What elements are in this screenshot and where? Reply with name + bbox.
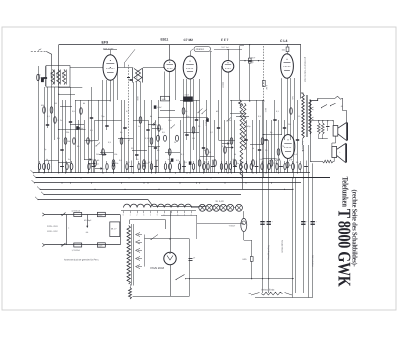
antenna lead-in (dashed) — [31, 51, 46, 53]
junction d55 — [169, 238, 170, 239]
svg-text:4: 4 — [150, 214, 151, 217]
wire column x117.6 — [117, 68, 119, 101]
wire column x113.5 — [113, 80, 115, 173]
svg-text:10k: 10k — [260, 158, 263, 161]
wire V5 anode right — [300, 45, 302, 99]
wire xfmr sec top — [310, 98, 318, 100]
coil box K2 — [184, 97, 193, 102]
junction 10 — [241, 177, 242, 178]
wire column x278.5 — [278, 120, 280, 173]
interference filter D2 — [97, 243, 105, 247]
svg-text:W. 6,3V: W. 6,3V — [216, 200, 225, 203]
resistor R30 tall — [240, 103, 243, 178]
wire y162 — [58, 162, 70, 164]
svg-text:Telefunken: Telefunken — [340, 177, 349, 208]
svg-text:50k: 50k — [67, 140, 70, 143]
wire y100 a — [75, 100, 110, 102]
junction d41 — [110, 67, 111, 68]
capacitor C4 — [90, 117, 93, 119]
wire column x62 — [62, 100, 64, 173]
svg-text:1001: 1001 — [61, 72, 64, 76]
svg-text:60.36μF: 60.36μF — [84, 219, 92, 222]
junction d51 — [169, 71, 170, 72]
wire column x259.5 — [259, 120, 261, 173]
wire column x38 — [38, 66, 40, 173]
wire column x95 — [94, 120, 96, 173]
junction d21 — [183, 177, 184, 178]
svg-text:2: 2 — [136, 214, 137, 217]
wire column x55 — [54, 87, 56, 140]
wire grid feed y60.7 — [240, 60, 265, 62]
resistor R40 0.1M — [263, 80, 266, 86]
junction d35 — [271, 182, 272, 183]
wire y140 a — [85, 140, 99, 142]
svg-text:Heizw. Entbr.: Heizw. Entbr. — [262, 288, 276, 291]
resistor Rg antenna — [41, 78, 43, 82]
lamp La1 — [199, 204, 206, 211]
junction d52 — [128, 139, 129, 140]
wire col A — [262, 178, 264, 293]
wire col E — [308, 145, 310, 298]
junction d50 — [58, 129, 59, 130]
junction d60 — [318, 120, 319, 121]
resistor Rr13 — [143, 164, 146, 170]
coil box K1 — [161, 96, 170, 101]
junction d10 — [113, 172, 114, 173]
tube V4 FF7 — [222, 61, 234, 73]
resistor Rr25 — [225, 164, 228, 170]
svg-text:1M: 1M — [54, 102, 57, 105]
wire column x281.3 — [281, 78, 283, 134]
resistor Rr22 — [207, 164, 209, 170]
svg-text:25k: 25k — [115, 162, 118, 165]
wire column x91.5 — [91, 87, 93, 173]
svg-text:x: x — [68, 228, 69, 230]
wire box right vertical — [120, 215, 122, 246]
svg-text:9: 9 — [184, 214, 185, 217]
svg-text:Tonabnehmer: Tonabnehmer — [281, 240, 284, 253]
junction d64 — [287, 44, 288, 45]
wire column x81 — [80, 100, 82, 173]
junction 11 — [262, 177, 263, 178]
mains lead upper — [45, 214, 121, 216]
junction d26 — [214, 177, 215, 178]
wire chain to lamps — [192, 207, 200, 209]
chain tap 3 — [137, 211, 139, 213]
junction d46 — [227, 60, 228, 61]
junction d43 — [117, 67, 118, 68]
svg-text:1n: 1n — [138, 125, 140, 128]
wire column x207 — [206, 100, 208, 173]
wire column x75.5 — [75, 100, 77, 173]
resistor R23 — [252, 160, 255, 166]
junction d11 — [121, 182, 122, 183]
transformer tap 2 — [136, 240, 141, 244]
mains plug upper — [42, 213, 44, 216]
wire column x190 — [190, 79, 192, 173]
junction d2 — [51, 177, 52, 178]
wire box to V3 — [190, 52, 192, 57]
tube V8 RGN2004 — [164, 252, 176, 264]
resistor Rr36 — [284, 164, 286, 170]
svg-text:6: 6 — [164, 214, 165, 217]
capacitor Cr39 — [304, 166, 308, 168]
capacitor C blob4 — [171, 158, 174, 161]
junction 6 — [169, 177, 170, 178]
wire column x196.5 — [196, 100, 198, 173]
svg-text:5n: 5n — [270, 131, 272, 134]
resistor Rr14 — [150, 164, 152, 170]
junction d39 — [290, 177, 291, 178]
resistor Rr16 — [164, 164, 166, 170]
wire column x159 — [158, 100, 160, 173]
wire column x103 — [102, 80, 104, 173]
switch S5a — [322, 105, 328, 108]
svg-text:5: 5 — [157, 214, 158, 217]
svg-text:RGN 2004: RGN 2004 — [151, 266, 165, 270]
wire column x121.5 — [121, 100, 123, 173]
wire column x215 — [214, 120, 216, 173]
svg-text:2n: 2n — [229, 119, 231, 122]
wire column x151.5 — [151, 100, 153, 173]
wire column x193.5 — [193, 79, 195, 150]
capacitor C21 — [69, 121, 72, 123]
output transformer primary — [302, 94, 305, 138]
switch contact Ca2 — [88, 163, 94, 165]
svg-text:30: 30 — [209, 151, 211, 154]
svg-text:50: 50 — [137, 158, 139, 161]
junction d42 — [102, 67, 103, 68]
svg-text:(rechte Seite des Schaltbildes: (rechte Seite des Schaltbildes)- — [350, 190, 358, 267]
svg-text:2M: 2M — [96, 153, 99, 156]
wire column x164 — [164, 72, 166, 101]
wire V1 bottom stub — [110, 80, 112, 100]
svg-text:EF9: EF9 — [102, 41, 109, 45]
wire column x262.5 — [262, 100, 264, 178]
junction d63 — [333, 120, 334, 121]
wire rectifier cathode — [170, 265, 172, 296]
transformer tap 1 — [136, 233, 141, 237]
resistor R9 — [102, 149, 105, 155]
resistor R14 — [150, 138, 153, 144]
wire column x84.5 — [84, 120, 86, 160]
svg-text:1M: 1M — [90, 140, 93, 143]
wire column x235 — [234, 120, 236, 173]
wire tap bus — [144, 235, 146, 267]
resistor Ro3 — [176, 135, 179, 141]
capacitor C13 — [217, 127, 220, 129]
junction 1 — [58, 172, 59, 173]
IF transformer T1 coils — [134, 69, 141, 83]
junction d4 — [65, 172, 66, 173]
wire column x268.75 — [268, 140, 270, 178]
wire y132 — [184, 132, 199, 134]
chain tap 8 — [171, 211, 173, 213]
wire box left vertical — [66, 215, 68, 246]
capacitor block 68.1F — [110, 222, 120, 237]
junction d13 — [133, 172, 134, 173]
junction 7 — [189, 172, 190, 173]
wire y134 out — [263, 134, 282, 136]
svg-text:C L4: C L4 — [280, 39, 287, 43]
wire column x293.5 — [293, 120, 295, 178]
junction d65 — [249, 44, 250, 45]
junction d62 — [327, 120, 328, 121]
junction d45 — [189, 55, 190, 56]
lamp La3 — [213, 204, 220, 211]
resistor R27 — [290, 108, 293, 114]
wire column x155.5 — [155, 120, 157, 173]
wire column x287.5 — [287, 78, 289, 135]
chassis box left — [129, 220, 131, 224]
wire V1 grid top — [110, 50, 112, 55]
bus line 2 — [36, 177, 330, 179]
wire column x203.5 — [203, 120, 205, 173]
wire y117 mid — [158, 117, 208, 119]
wire box to V1 — [70, 67, 103, 69]
svg-text:EB11: EB11 — [161, 38, 169, 42]
wire column x107 — [106, 80, 108, 130]
capacitor Cr3 — [60, 166, 64, 168]
wire y113 r — [230, 113, 245, 115]
junction d54 — [281, 134, 282, 135]
svg-text:5n: 5n — [120, 131, 122, 134]
wire y152 a — [100, 152, 114, 154]
chain tap 11 — [191, 211, 193, 213]
resistor Rr0 — [38, 164, 40, 170]
speaker LS2 cone — [337, 144, 346, 163]
capacitor Cr15 — [154, 166, 158, 168]
svg-text:100R: 100R — [136, 96, 139, 101]
resistor R13 — [143, 160, 146, 166]
wire col C — [292, 178, 294, 298]
svg-text:6k: 6k — [83, 102, 85, 105]
wire y278.8 — [186, 278, 295, 280]
junction d33 — [259, 177, 260, 178]
svg-text:2M: 2M — [288, 123, 291, 126]
switch S2 — [227, 118, 231, 122]
wire V7 top — [243, 211, 245, 218]
wire y140 b — [219, 140, 236, 142]
bus line 4 — [40, 189, 293, 191]
junction d24 — [203, 172, 204, 173]
junction d61 — [322, 120, 323, 121]
junction d53 — [263, 134, 264, 135]
wire column x271.5 — [271, 120, 273, 173]
capacitor C17 — [273, 119, 276, 121]
junction d25 — [206, 189, 207, 190]
capacitor C IF a — [127, 77, 130, 79]
capacitor Cr11 — [130, 166, 134, 168]
resistor Rr5 — [70, 164, 73, 170]
resistor Rr34 — [276, 164, 278, 170]
lamp La6 — [236, 204, 243, 211]
capacitor C18 — [283, 127, 286, 129]
resistor Rr9 — [112, 164, 115, 170]
wire bus4 corner — [242, 173, 244, 189]
wire column x297.5 — [297, 100, 299, 173]
wire rectifier anode — [170, 211, 172, 252]
switch break upper — [62, 213, 66, 217]
svg-text:1001: 1001 — [50, 72, 53, 76]
wire y293 right tick — [285, 293, 293, 296]
wire column x47.5 — [47, 87, 49, 128]
wire column x51.5 — [51, 66, 53, 173]
wire y152 b — [165, 152, 180, 154]
wire column x98.5 — [98, 100, 100, 140]
svg-text:40/80Hz: 40/80Hz — [196, 48, 205, 51]
wire V1 anode to IF-T — [118, 67, 134, 69]
switch S3 — [96, 143, 100, 147]
wire column x65.5 — [65, 100, 67, 173]
antenna switch tick — [38, 49, 41, 51]
svg-text:1M: 1M — [192, 137, 195, 140]
junction d32 — [252, 172, 253, 173]
wire top right col — [239, 46, 241, 101]
svg-text:110V~/12V: 110V~/12V — [47, 230, 58, 233]
resistor R6R5 — [250, 257, 253, 262]
resistor Rr38 — [299, 164, 301, 170]
wire V4 left lead — [221, 66, 223, 173]
resistor Rr4 — [66, 164, 68, 170]
capacitor C19 — [296, 139, 299, 141]
chain base line — [121, 210, 196, 212]
wire y223.4 link — [197, 223, 244, 225]
tube V6 CL4 — [281, 135, 295, 159]
capacitor C50 lead — [87, 215, 89, 227]
capacitor C3 — [77, 127, 80, 129]
junction d31 — [245, 182, 246, 183]
resistor R60 (cathode) — [286, 162, 289, 168]
resistor Rr21 — [203, 164, 206, 170]
junction d20 — [179, 182, 180, 183]
wire y120 b — [133, 120, 148, 122]
wire column x211 — [210, 52, 212, 174]
wire y138 — [118, 138, 133, 140]
wire V2 top lead — [169, 45, 171, 60]
bus hook 3 — [32, 180, 35, 183]
switch arrows mid — [198, 109, 203, 113]
resistor R2 — [43, 107, 46, 113]
svg-text:50k: 50k — [41, 104, 44, 107]
resistor R31 tall — [243, 103, 246, 150]
wire y215 link — [161, 215, 197, 217]
wire g y94 — [59, 94, 75, 96]
wire lamp link 1 — [205, 207, 207, 209]
mains transformer core — [131, 224, 133, 286]
capacitor C blob2 — [206, 118, 209, 122]
junction d28 — [224, 182, 225, 183]
junction bottom dots — [262, 278, 263, 279]
mains lead lower — [45, 244, 121, 246]
wire speaker mid row — [311, 120, 333, 122]
capacitor C5 — [105, 125, 108, 127]
wire y101 node — [230, 100, 264, 102]
wire column x136.8 — [136, 82, 138, 160]
xfmr tap 1 — [311, 107, 314, 110]
wire field return — [319, 138, 328, 140]
electrolytic C60 — [260, 221, 264, 222]
junction 8 — [210, 177, 211, 178]
junction 9 — [227, 172, 228, 173]
wire V4 top — [228, 50, 230, 61]
resistor Rr28 — [240, 164, 242, 170]
wire y106 — [60, 106, 72, 108]
switch S5 squiggle — [335, 96, 343, 99]
wire AVC lower — [263, 102, 265, 178]
capacitor Cr27 — [233, 166, 237, 168]
wire column x44 — [44, 87, 46, 173]
wire top bus B+ — [59, 44, 301, 46]
resistor R16 — [182, 108, 185, 114]
svg-text:1kW: 1kW — [291, 96, 294, 100]
resistor Rr6 — [88, 164, 90, 170]
resistor R24 — [261, 138, 264, 144]
tube V1 EF9 — [103, 55, 118, 81]
junction d37 — [278, 172, 279, 173]
junction d34 — [265, 172, 266, 173]
svg-text:10n: 10n — [168, 119, 171, 122]
wire column x284.5 — [284, 120, 286, 140]
junction 16 — [256, 172, 257, 173]
resistor Ro2 — [164, 135, 167, 141]
junction d48 — [58, 87, 59, 88]
junction d19 — [175, 172, 176, 173]
wire R41 leads — [249, 45, 251, 58]
resistor R21 — [230, 138, 233, 144]
resistor R1 — [37, 74, 40, 80]
resistor Rr17 — [169, 164, 172, 170]
capacitor C15 — [258, 149, 261, 151]
output transformer core — [306, 95, 308, 137]
svg-text:220V~/24V: 220V~/24V — [47, 225, 58, 228]
junction d1 — [43, 172, 44, 173]
junction d6 — [87, 172, 88, 173]
wire shunt right — [333, 158, 334, 162]
wire V6 cathode stub — [287, 159, 289, 173]
switch S7 — [151, 235, 158, 240]
capacitor C40 on grid feed — [248, 60, 252, 62]
junction d59 — [310, 161, 311, 162]
resistor R3 — [50, 107, 53, 113]
tube V3 C7M2 — [183, 56, 197, 79]
lamp La5 — [227, 204, 234, 211]
resistor R6 — [80, 108, 83, 114]
electrolytic C62 — [301, 221, 305, 222]
wire g y87 — [59, 87, 83, 89]
mains transformer primary — [127, 226, 130, 285]
box 40/80Hz — [194, 47, 211, 52]
svg-text:1k: 1k — [252, 147, 254, 150]
bus hook 4 — [37, 187, 40, 190]
junction 17 — [303, 177, 304, 178]
switch contact Ca1 — [84, 159, 90, 161]
resistor R45 (speaker shunt) — [323, 160, 334, 163]
junction d23 — [196, 182, 197, 183]
coil L1a — [51, 70, 54, 85]
wire column x78.2 — [78, 120, 80, 173]
capacitor C blob3 — [154, 105, 157, 108]
wire column x140.5 — [140, 82, 142, 173]
tube V5 CL4 — [281, 54, 294, 78]
svg-text:gemeinsamer Vorkreis mind: gemeinsamer Vorkreis mind — [304, 57, 307, 82]
wire y127 s — [44, 160, 59, 162]
switch S6 mains — [176, 275, 185, 280]
interference filter D1 — [97, 212, 105, 216]
wire col F — [312, 163, 314, 297]
svg-text:1112A: 1112A — [222, 82, 225, 88]
svg-text:5k: 5k — [204, 149, 206, 152]
